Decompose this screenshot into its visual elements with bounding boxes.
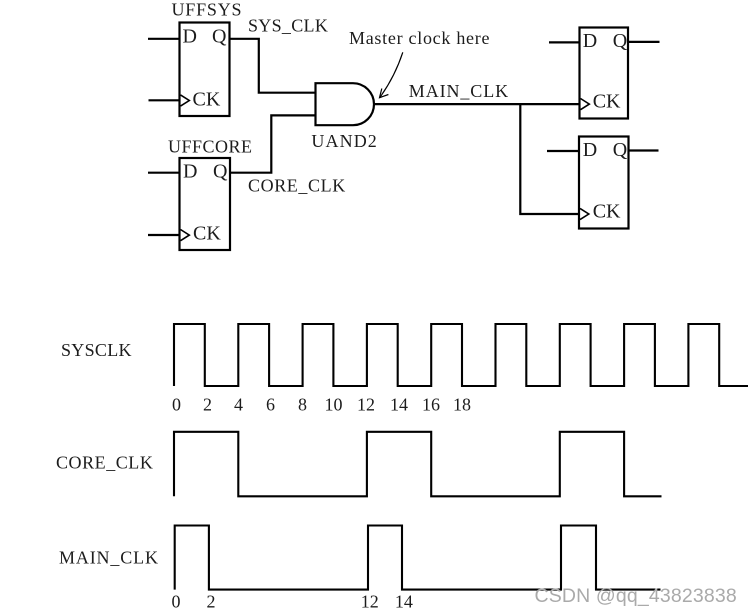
svg-text:CORE_CLK: CORE_CLK — [248, 176, 346, 196]
svg-text:Q: Q — [613, 30, 628, 52]
svg-text:6: 6 — [266, 395, 275, 415]
svg-text:16: 16 — [422, 395, 440, 415]
svg-text:CK: CK — [593, 91, 621, 113]
time axis labels SYSCLK — [172, 395, 471, 415]
waveform CORE_CLK trace — [174, 432, 662, 497]
svg-text:4: 4 — [234, 395, 243, 415]
svg-text:CK: CK — [193, 223, 221, 245]
svg-text:12: 12 — [357, 395, 375, 415]
svg-text:CK: CK — [593, 201, 621, 223]
svg-text:Q: Q — [212, 26, 227, 48]
svg-text:Master clock here: Master clock here — [349, 28, 490, 48]
waveform MAIN_CLK trace — [175, 526, 661, 590]
wire SYS_CLK net (UFFSYS Q to AND input A) — [230, 39, 316, 93]
svg-text:18: 18 — [453, 395, 471, 415]
svg-text:D: D — [583, 139, 597, 161]
svg-text:14: 14 — [395, 592, 413, 612]
svg-text:CSDN @qq_43823838: CSDN @qq_43823838 — [535, 585, 737, 607]
wire MAIN_CLK net (AND output) — [374, 103, 580, 105]
svg-text:CK: CK — [193, 89, 221, 111]
svg-text:UAND2: UAND2 — [311, 131, 378, 151]
flip-flop U4 body (lower right) — [579, 137, 629, 229]
clock triangle (U4) — [580, 208, 589, 219]
annotation arrow to AND output — [380, 52, 403, 97]
svg-text:D: D — [183, 26, 197, 48]
svg-text:14: 14 — [390, 395, 408, 415]
svg-text:D: D — [583, 30, 597, 52]
svg-text:0: 0 — [172, 395, 181, 415]
svg-text:SYSCLK: SYSCLK — [61, 340, 132, 360]
wire U3 D input — [549, 41, 580, 43]
wire UFFCORE D input — [148, 172, 180, 174]
svg-text:0: 0 — [172, 592, 181, 612]
clock triangle (U3) — [581, 99, 590, 110]
waveform SYSCLK trace — [174, 324, 748, 386]
svg-text:D: D — [183, 161, 197, 183]
wire CORE_CLK net (UFFCORE Q to AND input B) — [230, 115, 316, 172]
svg-text:Q: Q — [213, 161, 228, 183]
time axis labels MAIN_CLK — [172, 592, 413, 612]
svg-text:MAIN_CLK: MAIN_CLK — [59, 548, 159, 568]
wire U3 Q output — [628, 41, 660, 43]
svg-text:MAIN_CLK: MAIN_CLK — [409, 81, 509, 101]
svg-text:8: 8 — [298, 395, 307, 415]
clock triangle (UFFCORE) — [181, 230, 190, 241]
clock triangle (UFFSYS) — [181, 95, 190, 106]
svg-text:10: 10 — [325, 395, 343, 415]
flip-flop UFFSYS body — [180, 23, 230, 117]
svg-text:UFFSYS: UFFSYS — [172, 0, 243, 20]
svg-text:2: 2 — [207, 592, 216, 612]
svg-text:2: 2 — [203, 395, 212, 415]
flip-flop UFFCORE body — [180, 158, 231, 250]
svg-text:UFFCORE: UFFCORE — [168, 137, 253, 157]
svg-text:CORE_CLK: CORE_CLK — [56, 453, 153, 473]
flip-flop U3 body (upper right) — [580, 28, 629, 119]
wire UFFSYS CK input — [149, 99, 181, 101]
svg-text:Q: Q — [613, 139, 628, 161]
wire U4 Q output — [629, 149, 659, 151]
wire MAIN_CLK branch to lower flip-flop — [520, 104, 579, 214]
wire UFFSYS D input — [148, 38, 180, 40]
AND gate UAND2 — [316, 83, 374, 125]
svg-text:12: 12 — [361, 592, 379, 612]
svg-text:SYS_CLK: SYS_CLK — [248, 16, 328, 36]
wire U4 D input — [547, 150, 580, 152]
wire UFFCORE CK input — [148, 234, 180, 236]
